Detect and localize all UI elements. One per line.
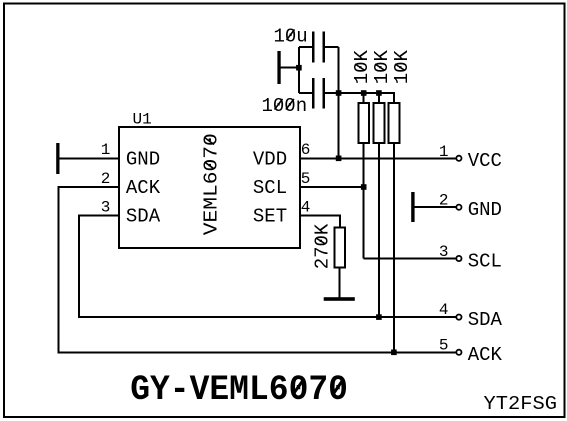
svg-text:4: 4 [301, 199, 311, 217]
10K R1 zero slash [355, 64, 365, 71]
wire 100n right lead [324, 92, 339, 94]
svg-text:3: 3 [101, 199, 111, 217]
junction node VDD wire [336, 156, 342, 162]
resistor R3 10K body [389, 103, 400, 143]
resistor R1 10K leads [363, 93, 365, 103]
connector pin 1 circle [456, 156, 461, 161]
connector pin 3 circle [456, 256, 461, 261]
connector pin 4 circle [456, 315, 461, 320]
title zero slashes [293, 379, 305, 395]
wire pin6 VDD to connector 1 VCC [300, 157, 456, 159]
wire 10u right lead [324, 46, 339, 48]
connector pin 2 circle [456, 205, 461, 210]
wire cap gnd stub [281, 67, 299, 69]
resistor R1 10K body [358, 103, 369, 143]
svg-text:GND: GND [126, 148, 160, 170]
svg-text:VEML6070: VEML6070 [200, 133, 222, 235]
svg-text:2: 2 [439, 192, 449, 210]
resistor R2 10K body [374, 103, 385, 143]
svg-text:3: 3 [439, 243, 449, 261]
wire connector 3 SCL [364, 258, 456, 260]
wire 100n left lead [299, 92, 313, 94]
svg-text:10u: 10u [274, 26, 308, 48]
ground terminal bar (connector pin2) [411, 192, 414, 222]
svg-text:10K: 10K [371, 49, 393, 84]
small zero slashes [205, 30, 406, 245]
svg-text:U1: U1 [133, 110, 152, 128]
wire cap left vertical [298, 47, 300, 93]
wire connector 2 GND stub [415, 206, 456, 208]
capacitor C1 10u plates [312, 32, 314, 63]
svg-text:ACK: ACK [468, 344, 503, 366]
wire cap right vertical to VDD net [338, 47, 340, 158]
junction node cap-gnd [296, 65, 302, 71]
svg-text:SET: SET [253, 206, 287, 228]
10K R2 zero slash [375, 64, 385, 71]
svg-text:2: 2 [101, 170, 111, 188]
wire pin5 SCL stub [300, 186, 364, 188]
svg-text:10K: 10K [391, 49, 413, 84]
IC U1 body [119, 127, 300, 248]
svg-text:1: 1 [101, 141, 111, 159]
resistor R4 270K body [334, 227, 345, 267]
svg-text:SDA: SDA [468, 309, 503, 331]
ground terminal bar (cap net) [277, 51, 280, 84]
svg-text:5: 5 [301, 170, 311, 188]
100n zero slashes [275, 99, 283, 110]
svg-text:VCC: VCC [468, 150, 502, 172]
ground terminal bar (IC pin1) [56, 143, 59, 174]
svg-text:10K: 10K [351, 49, 373, 84]
svg-text:1: 1 [439, 143, 449, 161]
capacitor C2 100n plates [312, 78, 314, 109]
VEML6070 zero slashes [205, 162, 215, 169]
wire pin4 SET to resistor R4 [300, 216, 340, 228]
wire 10u left lead [299, 46, 313, 48]
wire pull-up top rail [339, 93, 394, 103]
10K R3 zero slash [395, 64, 405, 71]
junction node rail R2 [376, 90, 382, 96]
wire pin1 GND stub [59, 157, 119, 159]
resistor R3 10K leads [393, 143, 395, 352]
svg-text:100n: 100n [262, 95, 308, 117]
svg-text:SCL: SCL [253, 177, 287, 199]
wire R4 bottom lead [339, 267, 341, 297]
connector pin 5 circle [456, 350, 461, 355]
svg-text:5: 5 [439, 336, 449, 354]
wire pin2 ACK to connector 5 [59, 187, 456, 352]
svg-text:SDA: SDA [126, 206, 161, 228]
ground symbol (below R4) [324, 297, 355, 301]
svg-text:ACK: ACK [126, 177, 161, 199]
svg-text:GND: GND [468, 199, 502, 221]
svg-text:VDD: VDD [253, 148, 287, 170]
svg-text:4: 4 [439, 301, 449, 319]
wire pin3 SDA to connector 4 [79, 216, 456, 317]
junction node SDA R2 [376, 314, 382, 320]
svg-text:270K: 270K [312, 223, 334, 269]
svg-text:YT2FSG: YT2FSG [484, 393, 558, 415]
svg-text:GY-VEML6070: GY-VEML6070 [130, 371, 348, 410]
junction node ACK R3 [391, 350, 397, 356]
270K zero slash [316, 238, 326, 244]
svg-text:SCL: SCL [468, 250, 502, 272]
junction node SCL pin5 [361, 184, 367, 190]
junction node rail R1 [361, 90, 367, 96]
10u zero slash [287, 30, 295, 41]
svg-text:6: 6 [301, 141, 311, 159]
resistor R2 10K leads [378, 93, 380, 103]
junction node caps-VDD [336, 90, 342, 96]
